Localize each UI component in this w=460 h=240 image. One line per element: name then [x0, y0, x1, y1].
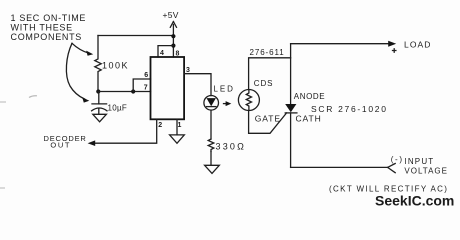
svg-text:ANODE: ANODE — [294, 92, 325, 101]
svg-text:OUT: OUT — [50, 141, 71, 150]
node +5V junction — [171, 34, 175, 38]
svg-text:SCR 276-1020: SCR 276-1020 — [311, 104, 388, 114]
optocoupler box wiring: anode to CDS top — [249, 58, 291, 90]
wire CDS bottom to SCR gate — [249, 111, 287, 134]
svg-text:100K: 100K — [102, 61, 129, 71]
svg-text:10µF: 10µF — [108, 104, 128, 113]
wire to LOAD — [291, 43, 390, 45]
wire R2 to ground — [210, 152, 212, 166]
svg-text:6: 6 — [144, 72, 148, 79]
svg-text:276-611: 276-611 — [250, 48, 285, 57]
svg-text:CATH: CATH — [296, 114, 322, 124]
wire node to pin 7 — [98, 91, 150, 93]
wire LED to R2 — [210, 110, 212, 139]
light coupling arrow — [224, 101, 232, 106]
svg-text:WITH THESE: WITH THESE — [11, 23, 73, 33]
svg-text:1 SEC ON-TIME: 1 SEC ON-TIME — [11, 13, 87, 23]
capacitor C1 10uF — [92, 92, 128, 115]
svg-text:330Ω: 330Ω — [216, 142, 247, 152]
svg-text:2: 2 — [158, 122, 162, 129]
svg-text:GATE: GATE — [255, 114, 281, 124]
svg-text:COMPONENTS: COMPONENTS — [11, 32, 83, 42]
node pin6 loop junction — [131, 89, 135, 93]
leader arrow to capacitor C1 — [66, 43, 89, 102]
note: 1 SEC ON-TIME WITH THESE COMPONENTS — [11, 13, 87, 42]
svg-text:3: 3 — [186, 67, 190, 74]
resistor R2 330 ohm — [208, 139, 246, 152]
wire SCR cathode — [290, 113, 292, 167]
svg-text:SeekIC.com: SeekIC.com — [375, 193, 454, 209]
svg-text:(-): (-) — [391, 155, 404, 164]
node R1/C1/pin7 junction — [96, 89, 100, 93]
svg-text:INPUT: INPUT — [404, 157, 434, 166]
label DECODER OUT — [44, 134, 87, 150]
wire pin 1 to ground — [176, 119, 178, 135]
resistor R1 100K — [95, 36, 129, 92]
svg-text:LOAD: LOAD — [404, 40, 432, 50]
wire cathode to input terminal — [291, 166, 388, 168]
input terminal fork — [388, 164, 396, 173]
node pin4 loop junction — [171, 44, 175, 48]
svg-text:7: 7 — [144, 85, 148, 92]
svg-text:VOLTAGE: VOLTAGE — [404, 167, 448, 176]
wire pin 4 loop — [158, 46, 173, 57]
scan smudge marks — [29, 96, 37, 98]
wire pin 6 loop — [133, 79, 150, 92]
wire pin 3 to LED — [184, 74, 211, 96]
wire +5V rail to R1 — [98, 35, 173, 37]
wire +5V vertical to IC pin 8 — [172, 25, 174, 58]
leader arrow to resistor R1 — [72, 43, 93, 56]
svg-text:LED: LED — [214, 85, 235, 94]
label (-) INPUT VOLTAGE — [391, 155, 448, 176]
svg-text:4: 4 — [160, 50, 164, 57]
LED D1 — [204, 85, 235, 111]
wire pin 2 to decoder out — [91, 119, 157, 143]
SCR Q1 anode wire — [290, 44, 292, 104]
ground under R2 — [205, 165, 220, 173]
svg-text:1: 1 — [178, 122, 182, 129]
SCR Q1 — [285, 104, 297, 113]
svg-text:+5V: +5V — [163, 10, 179, 20]
photocell CDS — [238, 90, 259, 111]
+5V supply — [163, 10, 179, 27]
plus polarity mark — [393, 49, 396, 52]
op IC U1 (timer) body — [151, 57, 185, 119]
svg-text:CDS: CDS — [254, 79, 274, 88]
ground under C1 — [93, 114, 107, 122]
ground under pin 1 — [170, 135, 185, 143]
